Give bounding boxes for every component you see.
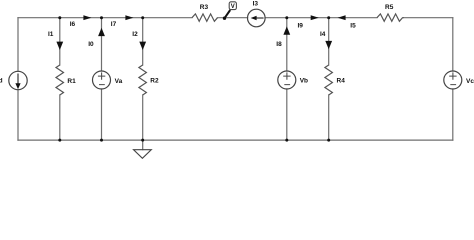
svg-text:Vc: Vc	[466, 78, 474, 85]
svg-text:I1: I1	[48, 31, 54, 38]
svg-text:I4: I4	[320, 31, 326, 38]
svg-text:I7: I7	[111, 21, 117, 28]
svg-text:I8: I8	[276, 41, 282, 48]
svg-text:R1: R1	[67, 78, 76, 85]
svg-text:R4: R4	[337, 78, 346, 85]
svg-text:R5: R5	[385, 4, 394, 11]
svg-text:R2: R2	[150, 78, 159, 85]
svg-text:I5: I5	[350, 23, 356, 30]
svg-text:R3: R3	[200, 4, 209, 11]
svg-text:V: V	[231, 4, 235, 10]
svg-text:I3: I3	[253, 0, 259, 7]
svg-text:I6: I6	[70, 21, 76, 28]
svg-text:Vb: Vb	[300, 78, 308, 85]
svg-text:Id: Id	[0, 78, 3, 85]
svg-text:I0: I0	[88, 41, 94, 48]
svg-text:I9: I9	[298, 23, 304, 30]
svg-text:Va: Va	[115, 78, 123, 85]
svg-text:I2: I2	[132, 31, 138, 38]
